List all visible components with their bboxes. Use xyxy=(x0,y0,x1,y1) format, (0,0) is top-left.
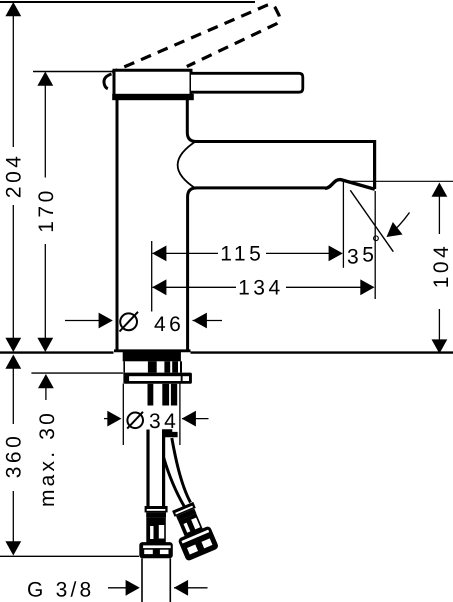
angled hose tube (curved) xyxy=(164,458,185,507)
svg-text:170: 170 xyxy=(35,187,58,233)
dim 115 xyxy=(153,252,342,254)
extension line faucet axis xyxy=(151,241,153,312)
vertical hose tube xyxy=(146,430,149,507)
under-deck washer band xyxy=(123,352,181,361)
supply pipes below flange xyxy=(148,384,154,407)
svg-text:204: 204 xyxy=(3,153,26,199)
spout right edge xyxy=(373,140,376,189)
tick line 360 bottom xyxy=(0,555,139,557)
dim O34 leads xyxy=(104,418,120,420)
tick line top (204 reference) xyxy=(0,1,255,3)
svg-text:°: ° xyxy=(372,232,384,255)
svg-text:46: 46 xyxy=(154,313,184,336)
dim 134 xyxy=(153,286,374,288)
handle cap xyxy=(114,70,191,96)
svg-text:134: 134 xyxy=(238,276,284,299)
mounting flange nut xyxy=(123,373,191,384)
dim line 204 xyxy=(12,10,14,345)
35 degree leader arrow xyxy=(389,213,410,235)
shank mid section pipes xyxy=(123,361,125,372)
extension line spout tip xyxy=(374,191,376,299)
O34 text background xyxy=(125,406,179,432)
deck line xyxy=(0,351,114,353)
svg-text:3: 3 xyxy=(347,246,362,269)
spout bottom + body lower right edge xyxy=(188,188,326,351)
hose elbow to angled hose xyxy=(162,429,177,437)
35 degree line xyxy=(350,190,393,251)
dim max30 arrow xyxy=(38,374,54,388)
aerator hump and 35deg face xyxy=(325,180,375,190)
vertical connector big nut xyxy=(139,542,173,558)
vertical connector window section xyxy=(146,518,166,543)
tick line 104 (aerator level) xyxy=(343,180,453,182)
dashed raised lever xyxy=(112,5,280,73)
body bottom edge xyxy=(114,349,191,352)
label O34 xyxy=(127,412,143,429)
G3/8 threaded pipe xyxy=(141,558,143,602)
body right edge + spout top xyxy=(187,100,374,142)
handle joint band xyxy=(112,94,194,100)
svg-text:115: 115 xyxy=(220,243,264,266)
lever rod xyxy=(191,73,303,92)
extension line aerator xyxy=(342,181,344,268)
svg-text:max. 30: max. 30 xyxy=(36,410,59,507)
vertical hose connector nut xyxy=(145,506,168,512)
dim line 170 xyxy=(44,80,46,345)
angled hose connector (rotated group) xyxy=(166,500,219,562)
tick line max30 xyxy=(31,372,123,374)
dim line 104 xyxy=(438,196,440,341)
dim 360 xyxy=(5,355,21,369)
svg-text:G 3/8: G 3/8 xyxy=(27,578,94,601)
O34 extension lines xyxy=(122,384,124,446)
tick line 170 xyxy=(33,71,114,73)
dashed cap back arc xyxy=(104,74,112,89)
svg-text:360: 360 xyxy=(2,433,25,479)
dim O46 leads xyxy=(65,320,111,322)
label O46 xyxy=(120,312,139,332)
dim G3/8 leads xyxy=(108,587,138,589)
spout root fillet arc xyxy=(178,141,197,190)
body left edge xyxy=(116,100,119,351)
svg-text:104: 104 xyxy=(430,243,453,289)
